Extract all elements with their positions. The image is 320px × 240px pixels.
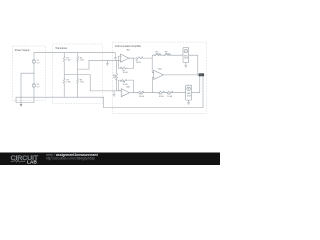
svg-text:OA2: OA2	[126, 86, 130, 89]
svg-text:1 kΩ: 1 kΩ	[66, 81, 71, 83]
svg-text:10 kΩ: 10 kΩ	[167, 96, 173, 98]
svg-text:1 kΩ: 1 kΩ	[80, 81, 85, 83]
svg-text:OA3: OA3	[158, 68, 162, 71]
svg-text:10 M: 10 M	[184, 58, 188, 60]
svg-text:Power Supply: Power Supply	[15, 49, 31, 52]
svg-text:http://circuitlab.com/c/6tkkg6: http://circuitlab.com/c/6tkkg6p953p	[46, 157, 95, 161]
svg-text:10 kΩ: 10 kΩ	[165, 54, 170, 56]
svg-text:Instrumentation Amplifier: Instrumentation Amplifier	[115, 45, 142, 48]
svg-text:10 kΩ: 10 kΩ	[139, 96, 145, 98]
svg-text:Transducer: Transducer	[55, 47, 67, 50]
svg-text:Vout: Vout	[199, 74, 203, 77]
svg-text:10 kΩ: 10 kΩ	[136, 62, 142, 64]
svg-text:1 kΩ: 1 kΩ	[66, 60, 71, 62]
svg-text:OA1: OA1	[126, 48, 130, 51]
svg-text:10 kΩ: 10 kΩ	[159, 96, 165, 98]
svg-text:10 kΩ: 10 kΩ	[155, 54, 160, 56]
svg-text:LAB: LAB	[27, 160, 37, 165]
svg-text:10 M: 10 M	[187, 95, 191, 97]
svg-text:100: 100	[113, 77, 116, 79]
svg-text:1 kΩ: 1 kΩ	[80, 60, 85, 62]
svg-text:10 kΩ: 10 kΩ	[123, 84, 129, 86]
svg-text:10 kΩ: 10 kΩ	[123, 72, 129, 74]
